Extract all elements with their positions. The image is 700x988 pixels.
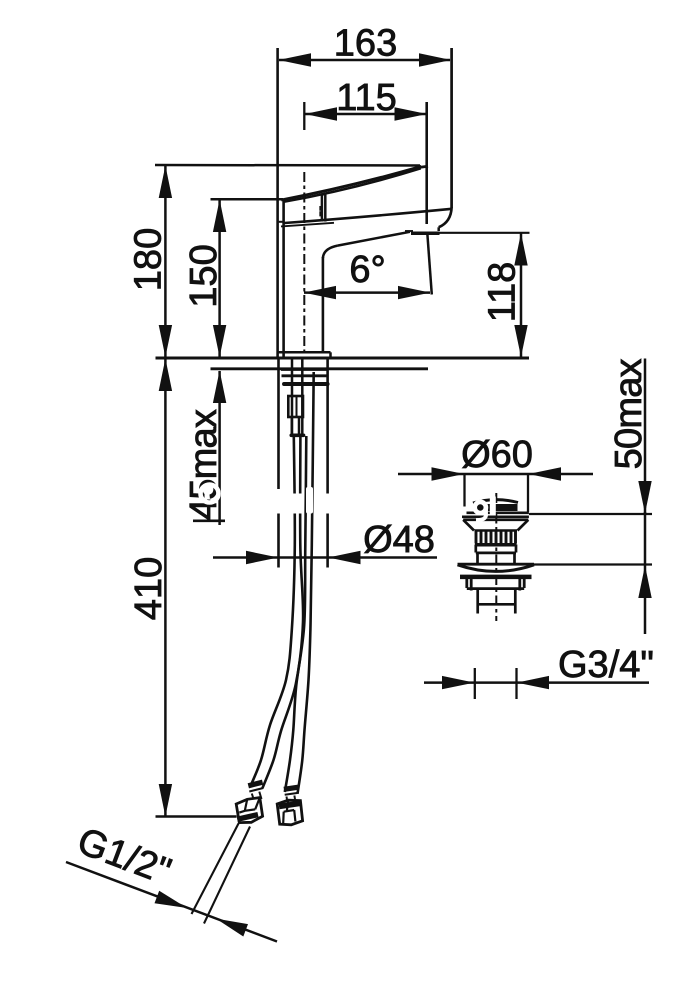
dim 115 left extension tick <box>303 102 305 130</box>
stud clip inner line <box>296 396 298 417</box>
svg-text:6°: 6° <box>349 249 385 291</box>
faucet handle front edge <box>282 201 285 358</box>
svg-text:Ø48: Ø48 <box>363 519 435 561</box>
faucet handle top edge <box>281 166 421 200</box>
shank washer second line <box>282 374 328 377</box>
drain saucer bottom arc <box>458 565 535 572</box>
faucet column front edge <box>322 257 325 353</box>
dim G3/4 left extension tick <box>474 668 476 699</box>
cartridge boss left edge <box>321 195 324 222</box>
drain upper body left <box>474 545 477 553</box>
svg-text:163: 163 <box>334 22 397 64</box>
svg-text:G1/2": G1/2" <box>72 820 177 893</box>
countertop deck line <box>156 357 530 360</box>
svg-text:G3/4": G3/4" <box>558 644 654 686</box>
drain upper body bottom line <box>476 552 516 555</box>
svg-text:115: 115 <box>336 77 397 119</box>
dim 150 line <box>213 200 226 358</box>
stud clip box <box>288 396 303 417</box>
horseshoe plate line <box>284 382 328 386</box>
dim 163 line <box>279 53 452 66</box>
faucet body rear step <box>437 227 440 231</box>
hose B crimp collar <box>284 787 298 789</box>
hose A crimp collar <box>248 782 262 786</box>
faucet body shoulder line <box>285 209 451 223</box>
faucet body front shoulder notch <box>279 221 284 223</box>
drain neck left <box>476 553 479 564</box>
drain ribbed band bottom <box>475 543 517 547</box>
dim 410 line <box>159 359 172 817</box>
drain cap body <box>474 504 518 511</box>
dim 163 left extension line <box>276 48 279 357</box>
drain tube right edge <box>514 589 517 614</box>
countertop bottom line <box>211 367 429 370</box>
dim G1/2 leader line <box>66 862 277 942</box>
watermark white letters over drain cap <box>456 497 493 521</box>
spout underside line <box>338 232 411 246</box>
hose A right edge <box>263 436 304 788</box>
dim 50max line <box>638 359 651 635</box>
base flange top line <box>278 351 331 354</box>
spout stream 6deg slant line <box>427 233 432 295</box>
spout lower-left corner arc <box>323 246 338 258</box>
dim 50max lower extension line <box>534 563 653 565</box>
dim 45max line <box>213 371 226 526</box>
svg-text:45max: 45max <box>183 409 225 520</box>
drain upper body right <box>515 545 518 553</box>
drain tube thread line <box>478 603 516 606</box>
dim 180 line <box>159 166 172 358</box>
dim G3/4 line <box>424 676 649 689</box>
spout outlet ledge <box>405 230 413 232</box>
svg-text:50max: 50max <box>608 358 650 469</box>
watermark white letters over shank <box>272 487 332 514</box>
dim G3/4 right extension tick <box>515 668 517 699</box>
drain ribbed band <box>475 531 518 544</box>
hose A threaded nipple <box>192 824 251 924</box>
dim 115 right extension line (spout tip edge) <box>425 102 428 224</box>
mounting stud right edge <box>301 358 304 434</box>
hose B right edge <box>298 372 314 793</box>
drain neck right <box>513 553 516 564</box>
dim O60 left extension tick <box>463 474 465 512</box>
hose B nut <box>277 800 302 825</box>
faucet handle top inner edge <box>284 168 421 202</box>
dim 410 bottom extension line <box>156 815 237 818</box>
drain locknut top band <box>460 575 532 580</box>
cartridge boss top arc <box>322 194 327 195</box>
svg-text:Ø60: Ø60 <box>461 434 533 476</box>
dim 45max end tick <box>193 519 225 522</box>
drain flare left side <box>463 520 474 531</box>
drain tube left edge <box>476 589 479 614</box>
faucet body rear bottom corner arc <box>439 208 452 228</box>
svg-text:150: 150 <box>183 244 225 307</box>
drain cap rim top <box>462 511 529 514</box>
hose A left edge <box>251 436 295 785</box>
shank right edge <box>326 358 329 568</box>
faucet centerline (dashed) <box>303 172 305 354</box>
dim 6deg line <box>304 286 431 299</box>
hose A nut <box>236 798 262 823</box>
dim 115 line <box>305 107 427 120</box>
dim 150 extension line top <box>211 198 284 201</box>
drain centerline (dashed) <box>495 493 497 621</box>
faucet handle rear tip <box>420 166 428 167</box>
cartridge boss right edge <box>324 194 327 221</box>
base flange right edge <box>329 352 332 357</box>
drain flare top edge <box>463 518 528 521</box>
shank left edge <box>277 358 280 568</box>
spout outlet face <box>411 231 440 235</box>
dim O60 right extension tick <box>527 474 529 512</box>
cartridge boss clip notches <box>320 207 322 215</box>
drain saucer top edge <box>458 563 535 566</box>
dim 180 extension line top <box>155 164 420 167</box>
dim O60 line <box>398 467 593 480</box>
svg-text:180: 180 <box>128 228 170 291</box>
dim 118 top extension line <box>439 232 530 234</box>
shank washer line <box>281 368 328 371</box>
hose B left edge <box>285 436 307 792</box>
faucet body shoulder inner line <box>281 223 334 227</box>
hose A neck <box>252 792 262 801</box>
drain locknut body <box>467 579 524 591</box>
dim 50max upper extension line <box>529 513 652 515</box>
drain cap dome <box>473 500 518 503</box>
drain cap rim bottom <box>462 515 529 518</box>
dim 163 right extension line (rear edge) <box>450 48 453 208</box>
mounting stud left edge <box>291 358 294 434</box>
stud bottom cap <box>291 433 303 437</box>
dim 118 line <box>514 233 527 357</box>
watermark white ring over 45max <box>201 485 219 503</box>
hose B neck <box>287 796 296 802</box>
svg-text:118: 118 <box>482 262 524 323</box>
svg-text:410: 410 <box>128 557 170 620</box>
stud lower tab <box>292 417 299 435</box>
drain flare right side <box>518 520 529 531</box>
dim O48 line <box>213 551 437 564</box>
